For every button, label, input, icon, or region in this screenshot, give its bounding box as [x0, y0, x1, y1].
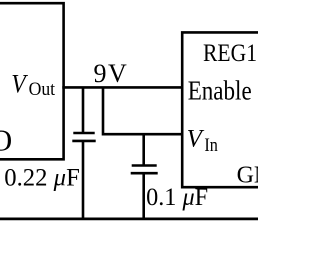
- wire: C1 bottom lead to ground rail: [82, 141, 85, 219]
- part label REG1: [203, 40, 257, 67]
- value label 0.22 uF: [4, 165, 80, 192]
- capacitor C2 0.1uF top plate: [132, 164, 157, 167]
- wire: drop from V_In wire to capacitor C2: [142, 134, 145, 165]
- capacitor C1 0.22uF top plate: [73, 132, 94, 135]
- svg-text:GND: GND: [237, 162, 258, 188]
- svg-text:Enable: Enable: [188, 75, 252, 105]
- left component box U1 (cropped at left image edge): [0, 3, 64, 159]
- wire: C2 bottom lead to ground rail: [142, 173, 145, 219]
- wire: drop from 9V rail to capacitor C1: [82, 87, 85, 133]
- wire: drop from 9V rail down and right to REG1 V_In: [103, 87, 184, 134]
- svg-text:REG1: REG1: [203, 40, 257, 67]
- pin label Enable: [188, 75, 252, 105]
- svg-text:9: 9: [94, 59, 107, 88]
- cropped label letter O inside left box: [0, 123, 12, 158]
- ground rail wire: [0, 217, 258, 220]
- svg-text:In: In: [204, 135, 218, 156]
- net label 9 V: [94, 59, 128, 88]
- svg-text:0.22 μF: 0.22 μF: [4, 165, 80, 192]
- svg-text:V: V: [108, 59, 127, 88]
- pin label GND (cropped at right image edge): [237, 162, 289, 188]
- wire: 9V rail from V_Out to REG1 Enable: [62, 86, 183, 89]
- pin label V_Out: [11, 69, 56, 100]
- svg-text:O: O: [0, 123, 12, 158]
- value label 0.1 uF: [146, 184, 208, 211]
- regulator REG1 box (cropped at right image edge): [182, 32, 258, 187]
- svg-text:Out: Out: [29, 79, 56, 100]
- capacitor C2 0.1uF bottom plate: [131, 172, 158, 175]
- capacitor C1 0.22uF bottom plate: [72, 140, 95, 143]
- pin label V_In: [187, 126, 219, 156]
